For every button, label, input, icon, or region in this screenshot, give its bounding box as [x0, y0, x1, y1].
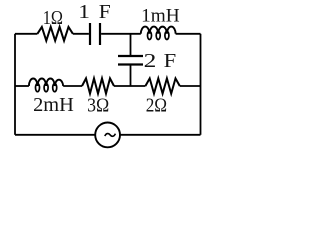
inductor L=1mH coil	[141, 27, 176, 34]
wire bottom-left segment	[15, 134, 95, 136]
inductor 1mH bottom loop 1	[148, 31, 152, 39]
wire between 2mH and 3ohm	[63, 85, 82, 87]
svg-text:2Ω: 2Ω	[146, 94, 167, 116]
capacitor C=1F right plate	[99, 23, 101, 45]
wire from 2F capacitor down to node M	[130, 65, 132, 87]
svg-text:1mH: 1mH	[141, 5, 180, 26]
right border wire	[200, 34, 202, 135]
wire middle-left segment	[15, 85, 29, 87]
inductor 1mH bottom loop 2	[156, 31, 160, 39]
wire bottom-right segment	[120, 134, 201, 136]
wire from 1F capacitor to top junction and on to inductor 1mH	[101, 33, 141, 35]
svg-text:F: F	[164, 51, 177, 72]
svg-text:1: 1	[78, 2, 90, 23]
resistor R=1ohm (top row zigzag)	[37, 27, 73, 41]
svg-text:3Ω: 3Ω	[87, 94, 109, 116]
wire between 1ohm and 1F capacitor	[73, 33, 89, 35]
svg-text:1Ω: 1Ω	[43, 7, 63, 29]
wire middle-right segment	[180, 85, 201, 87]
wire between 3ohm and 2ohm with node M	[114, 85, 145, 87]
AC source sine symbol	[105, 134, 116, 137]
capacitor C=1F left plate	[89, 23, 91, 45]
node T junction (top of 2F branch)	[130, 34, 132, 56]
wire top-left segment	[15, 33, 37, 35]
resistor R=2ohm (middle row zigzag)	[145, 78, 179, 93]
wire top-right segment	[176, 33, 201, 35]
svg-text:2: 2	[144, 51, 157, 72]
capacitor C=2F top plate	[118, 55, 143, 57]
inductor 1mH bottom loop 3	[165, 31, 169, 39]
capacitor C=2F bottom plate	[118, 63, 143, 65]
left border wire	[14, 34, 16, 135]
inductor 2mH bottom loop 3	[53, 84, 57, 92]
inductor L=2mH coil	[29, 78, 63, 86]
svg-text:F: F	[99, 2, 111, 23]
AC source V1 circle	[95, 122, 120, 147]
inductor 2mH bottom loop 2	[44, 84, 48, 92]
svg-text:2mH: 2mH	[33, 94, 74, 116]
inductor 2mH bottom loop 1	[36, 84, 40, 92]
resistor R=3ohm (middle row zigzag)	[82, 78, 114, 93]
